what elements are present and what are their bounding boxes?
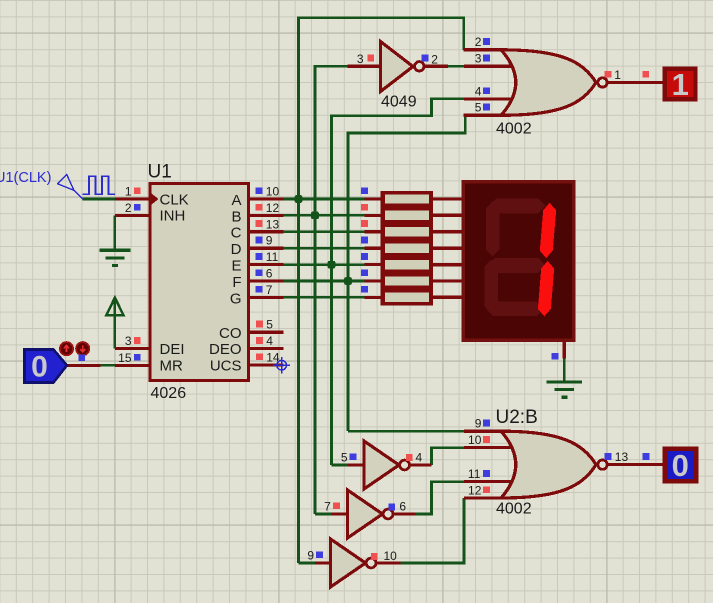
resistor R3 (segment C) bbox=[381, 224, 434, 240]
pin stub 4049 output pin 2 bbox=[425, 65, 449, 68]
state square U3:A output bbox=[406, 454, 413, 461]
U3:C input pin number 9 bbox=[307, 549, 314, 563]
pin stub U1 pin 12 B bbox=[249, 214, 284, 217]
pin stub U1 pin 4 DEO bbox=[249, 347, 284, 350]
state square net A at resistor bbox=[361, 187, 368, 194]
svg-text:2: 2 bbox=[125, 201, 132, 215]
pin stub inverter U3:B output pin 6 bbox=[393, 512, 416, 515]
pin stub gate U2:A output pin 1 bbox=[607, 81, 663, 84]
wire: inverter U3:A output up to gate U2:B pin 10 bbox=[432, 448, 465, 465]
svg-text:4: 4 bbox=[475, 84, 482, 98]
pin stub inverter U3:B input pin 7 bbox=[332, 512, 349, 515]
pin stub gate U2:A pin 2 bbox=[464, 48, 502, 51]
state square U2:B pin 9 bbox=[483, 420, 490, 427]
state square U1 pin 7 bbox=[256, 286, 263, 293]
resistor R2 (segment B) bbox=[381, 207, 434, 223]
pin stub gate U2:B pin 12 bbox=[464, 496, 502, 499]
svg-text:1: 1 bbox=[672, 67, 689, 102]
svg-text:5: 5 bbox=[475, 101, 482, 115]
svg-text:MR: MR bbox=[160, 358, 183, 375]
svg-text:11: 11 bbox=[468, 467, 481, 481]
svg-text:15: 15 bbox=[118, 351, 132, 365]
wire: net F from U1 to resistor ladder bbox=[283, 280, 365, 283]
U1 pin name MR bbox=[160, 358, 183, 375]
state square U1 pin 12 bbox=[256, 204, 263, 211]
svg-text:U2:B: U2:B bbox=[496, 407, 538, 428]
U1 pin name INH bbox=[160, 208, 186, 225]
wire: U1 pin 2 (INH) down to ground bbox=[114, 215, 117, 250]
state square U1 pin 11 bbox=[256, 253, 263, 260]
svg-text:12: 12 bbox=[468, 483, 482, 497]
state square U3:B output bbox=[388, 504, 395, 511]
svg-text:4: 4 bbox=[266, 334, 273, 348]
state square U1 pin 9 bbox=[256, 237, 263, 244]
pin stub gate U2:B pin 11 bbox=[464, 480, 511, 483]
state square U3:C output bbox=[371, 553, 378, 560]
wire: logic tag to U1 pin 15 (MR) bbox=[101, 364, 115, 367]
wire: clock generator to U1 pin 1 bbox=[83, 198, 115, 201]
svg-text:10: 10 bbox=[384, 549, 398, 563]
4049 input pin number 3 bbox=[357, 52, 364, 66]
svg-text:U1: U1 bbox=[148, 162, 172, 183]
wire: vertical net E riser, jog to gate U2:A pin 4 bbox=[332, 99, 465, 465]
state square net D at resistor bbox=[361, 237, 368, 244]
wire: net G from U1 to resistor ladder bbox=[283, 296, 365, 299]
svg-text:3: 3 bbox=[125, 334, 132, 348]
svg-text:CO: CO bbox=[219, 325, 242, 342]
U1 pin name E bbox=[231, 258, 241, 275]
state square U3:C input bbox=[316, 551, 323, 558]
7-segment display body bbox=[463, 182, 574, 340]
svg-text:4026: 4026 bbox=[151, 385, 187, 402]
pin stub U1 pin 1 CLK bbox=[115, 197, 150, 200]
logic state toggle button up bbox=[60, 342, 73, 355]
svg-text:CLK: CLK bbox=[160, 191, 189, 208]
U1 pin name D bbox=[231, 241, 242, 258]
4049 output pin number 2 bbox=[431, 52, 438, 66]
pin stub U1 pin 6 F bbox=[249, 279, 284, 282]
state square U2:A pin 2 bbox=[483, 38, 490, 45]
U2:A pin number 5 bbox=[475, 101, 482, 115]
wire: vertical net A riser to top then to gate U2:A pin 2 bbox=[299, 18, 464, 563]
svg-text:4002: 4002 bbox=[496, 501, 532, 518]
state square U1 pin 1 bbox=[134, 187, 141, 194]
wire: vertical net F riser to gate U2:A pin 5 bbox=[348, 115, 465, 431]
U1 pin name C bbox=[231, 225, 242, 242]
U1 pin name DEO bbox=[209, 341, 242, 358]
U1 pin number 7 bbox=[266, 283, 273, 297]
svg-text:10: 10 bbox=[266, 185, 280, 199]
state square U1 pin 10 bbox=[256, 187, 263, 194]
svg-text:F: F bbox=[232, 274, 241, 291]
U2:B output pin number 13 bbox=[615, 450, 629, 464]
state square U2:A pin 5 bbox=[483, 104, 490, 111]
inverter U3:B bbox=[348, 490, 394, 538]
svg-text:2: 2 bbox=[431, 52, 438, 66]
svg-text:0: 0 bbox=[31, 351, 48, 384]
U3:C output pin number 10 bbox=[384, 549, 398, 563]
svg-text:9: 9 bbox=[307, 549, 314, 563]
pin stub U1 pin 3 DEI bbox=[115, 347, 150, 350]
pin stub U1 pin 13 C bbox=[249, 230, 284, 233]
state square net C at resistor bbox=[361, 220, 368, 227]
state square at MR tag bbox=[78, 354, 85, 361]
U1 reference label bbox=[148, 162, 172, 183]
svg-text:3: 3 bbox=[475, 52, 482, 66]
pin stub inverter U3:C output pin 10 bbox=[376, 561, 401, 564]
resistor R4 (segment D) bbox=[381, 240, 434, 256]
pin stub inverter U3:A output pin 4 bbox=[410, 463, 432, 466]
wire: net E riser to inverter U3:A input bbox=[332, 464, 349, 467]
U2:A pin number 2 bbox=[475, 35, 482, 49]
svg-text:3: 3 bbox=[357, 52, 364, 66]
svg-text:12: 12 bbox=[266, 201, 280, 215]
state square U3:A input bbox=[350, 453, 357, 460]
state square U1 pin 13 bbox=[256, 220, 263, 227]
svg-text:11: 11 bbox=[266, 250, 279, 264]
state square U1 pin 4 bbox=[256, 337, 263, 344]
wire: display common cathode to ground bbox=[563, 359, 566, 382]
U1 pin name UCS bbox=[210, 358, 242, 375]
wire: net A from U1 to resistor ladder bbox=[283, 198, 365, 201]
state square U1 pin 15 bbox=[134, 354, 141, 361]
svg-text:1: 1 bbox=[614, 68, 621, 82]
clock generator probe symbol bbox=[58, 174, 83, 199]
svg-text:4: 4 bbox=[416, 451, 423, 465]
U1 pin number 5 bbox=[266, 318, 273, 332]
state square U2:B pin 12 bbox=[483, 486, 490, 493]
pin stub 4049 input pin 3 bbox=[348, 65, 381, 68]
U1 pin number 2 bbox=[125, 201, 132, 215]
pin stub gate U2:B pin 9 bbox=[464, 430, 502, 433]
U2:B pin number 9 bbox=[475, 417, 482, 431]
wire: net E from U1 to resistor ladder bbox=[283, 263, 365, 266]
U1 pin name F bbox=[232, 274, 241, 291]
svg-text:7: 7 bbox=[324, 500, 331, 514]
pin stub inverter U3:A input pin 5 bbox=[348, 463, 365, 466]
clock generator waveform glyph bbox=[83, 176, 115, 194]
logic state tag 0 at MR bbox=[25, 350, 67, 384]
pin stub U1 pin 10 A bbox=[249, 197, 284, 200]
U2:B pin number 12 bbox=[468, 483, 482, 497]
display segment G (off) bbox=[487, 258, 545, 273]
U1 value label 4026 bbox=[151, 385, 187, 402]
svg-text:13: 13 bbox=[266, 217, 280, 231]
state square U1 pin 3 bbox=[134, 337, 141, 344]
inverter U3:A bbox=[364, 441, 410, 489]
state square net E at resistor bbox=[361, 253, 368, 260]
state square U2:B pin 10 bbox=[483, 436, 490, 443]
resistor R5 (segment E) bbox=[381, 256, 434, 272]
svg-text:D: D bbox=[231, 241, 242, 258]
U1 pin number 13 bbox=[266, 217, 280, 231]
state square display common bbox=[552, 353, 559, 360]
wire: net D from U1 to resistor ladder bbox=[283, 247, 365, 250]
pin stub U1 pin 7 G bbox=[249, 296, 284, 299]
wire: net F down to gate U2:B pin 9 bbox=[348, 430, 464, 433]
pin stub gate U2:B output pin 13 bbox=[607, 463, 663, 466]
svg-text:E: E bbox=[231, 258, 241, 275]
logic probe box 0 (low) bbox=[665, 448, 697, 483]
state square U2:A output pin 1 bbox=[605, 71, 612, 78]
U1 pin name CO bbox=[219, 325, 242, 342]
svg-text:5: 5 bbox=[341, 450, 348, 464]
state square net B at resistor bbox=[361, 204, 368, 211]
pin stub resistor leads left column bbox=[365, 199, 382, 297]
resistor R7 (segment G) bbox=[381, 289, 434, 305]
svg-text:UCS: UCS bbox=[210, 358, 242, 375]
pin stub U1 pin 11 E bbox=[249, 263, 284, 266]
pin stub inverter U3:C input pin 9 bbox=[315, 561, 331, 564]
svg-text:2: 2 bbox=[475, 35, 482, 49]
display segment A (off) bbox=[489, 199, 546, 214]
state square U3:B input bbox=[333, 502, 340, 509]
svg-text:0: 0 bbox=[672, 448, 689, 483]
wire: net B riser to inverter U3:B input bbox=[315, 513, 332, 516]
pin stub U1 pin 15 MR bbox=[67, 364, 150, 367]
svg-text:7: 7 bbox=[266, 283, 273, 297]
pin stub U1 pin 5 CO bbox=[249, 331, 284, 334]
svg-text:9: 9 bbox=[475, 417, 482, 431]
wire: power arrow down to U1 pin 3 (DEI) bbox=[114, 300, 117, 349]
state square U1 pin 6 bbox=[256, 269, 263, 276]
logic probe box 1 (high) bbox=[665, 67, 696, 102]
U1 pin number 4 bbox=[266, 334, 273, 348]
svg-text:6: 6 bbox=[399, 499, 406, 513]
resistor R6 (segment F) bbox=[381, 273, 434, 289]
svg-text:B: B bbox=[231, 208, 241, 225]
U1 pin number 14 bbox=[266, 351, 280, 365]
U1 pin number 1 bbox=[125, 185, 132, 199]
state square 4049 output bbox=[422, 55, 429, 62]
U1 pin name CLK bbox=[160, 191, 189, 208]
svg-text:6: 6 bbox=[266, 267, 273, 281]
U2:B value label 4002 bbox=[496, 501, 532, 518]
svg-text:INH: INH bbox=[160, 208, 186, 225]
U2:A pin number 3 bbox=[475, 52, 482, 66]
ground symbol under display bbox=[547, 382, 583, 397]
pin stub gate U2:A pin 5 bbox=[464, 114, 502, 117]
U3:B input pin number 7 bbox=[324, 500, 331, 514]
counter U1 4026 body bbox=[150, 184, 249, 381]
pin stub gate U2:A pin 3 bbox=[464, 65, 511, 68]
wire: net A riser to inverter U3:C input bbox=[299, 562, 316, 565]
wire: inverter U3:C output to gate U2:B pin 12 bbox=[400, 498, 464, 563]
svg-text:A: A bbox=[231, 192, 241, 209]
junction dot net B bbox=[311, 212, 319, 220]
U1 pin name A bbox=[231, 192, 241, 209]
U1 pin number 11 bbox=[266, 250, 279, 264]
state square U1 pin 14 bbox=[256, 353, 263, 360]
pin stub U1 pin 14 UCS bbox=[249, 363, 284, 366]
U1 pin number 3 bbox=[125, 334, 132, 348]
logic state toggle button down bbox=[76, 342, 89, 355]
state square U2:A pin 4 bbox=[483, 87, 490, 94]
junction dot net E bbox=[328, 261, 336, 269]
U2:B pin number 11 bbox=[468, 467, 481, 481]
origin marker at U1 pin 14 bbox=[273, 357, 290, 374]
state square net G at resistor bbox=[361, 286, 368, 293]
wire: net B from U1 to resistor ladder bbox=[283, 214, 365, 217]
wire: net C from U1 to resistor ladder bbox=[283, 231, 365, 234]
svg-text:13: 13 bbox=[615, 450, 629, 464]
resistor R1 (segment A) bbox=[381, 191, 434, 207]
state square U2:B output pin 13 bbox=[605, 453, 612, 460]
svg-text:4049: 4049 bbox=[381, 94, 417, 111]
U1 pin number 10 bbox=[266, 185, 280, 199]
svg-text:C: C bbox=[231, 225, 242, 242]
display segment F (off) bbox=[486, 201, 500, 256]
pin stub display common cathode bbox=[563, 339, 566, 359]
U2:A output pin number 1 bbox=[614, 68, 621, 82]
svg-text:U1(CLK): U1(CLK) bbox=[0, 170, 51, 186]
inverter U2 4049 bbox=[381, 42, 424, 92]
U1 pin number 12 bbox=[266, 201, 280, 215]
svg-text:DEI: DEI bbox=[160, 341, 185, 358]
display segment B (lit) bbox=[540, 203, 556, 258]
NOR gate U2:A 4002 body bbox=[501, 50, 607, 116]
state square U1 pin 5 bbox=[256, 321, 263, 328]
svg-text:1: 1 bbox=[125, 185, 132, 199]
svg-text:4002: 4002 bbox=[496, 121, 532, 138]
wire: inverter U3:B output up to gate U2:B pin 11 bbox=[416, 482, 464, 514]
state square U2:B pin 11 bbox=[483, 470, 490, 477]
state square 4049 input bbox=[367, 55, 374, 62]
wire: 4049 output to gate U2:A pin 3 bbox=[448, 65, 464, 68]
U2:A value label 4002 bbox=[496, 121, 532, 138]
U1 pin name B bbox=[231, 208, 241, 225]
clock generator label U1(CLK) bbox=[0, 170, 51, 186]
U1 pin name G bbox=[230, 290, 242, 307]
U1 pin name DEI bbox=[160, 341, 185, 358]
U2:A pin number 4 bbox=[475, 84, 482, 98]
display segment E (off) bbox=[484, 260, 498, 314]
svg-text:G: G bbox=[230, 290, 242, 307]
svg-text:5: 5 bbox=[266, 318, 273, 332]
display segment D (off) bbox=[486, 301, 544, 316]
inverter U3:C bbox=[331, 539, 377, 587]
NOR gate U2:B 4002 body bbox=[501, 431, 607, 498]
state square net at probe 1 bbox=[642, 71, 649, 78]
U3:A output pin number 4 bbox=[416, 451, 423, 465]
U2:B pin number 10 bbox=[468, 433, 482, 447]
pin stub gate U2:A pin 4 bbox=[464, 97, 511, 100]
state square net at probe 0 bbox=[643, 453, 650, 460]
U1 pin number 6 bbox=[266, 267, 273, 281]
pin stub U1 pin 2 INH bbox=[115, 214, 150, 217]
U1 pin number 15 bbox=[118, 351, 132, 365]
state square U2:A pin 3 bbox=[483, 55, 490, 62]
power arrow (VCC) at U1 DEI bbox=[106, 298, 123, 316]
ground symbol at U1 INH bbox=[100, 250, 131, 265]
pin stub U1 pin 9 D bbox=[249, 247, 284, 250]
svg-text:DEO: DEO bbox=[209, 341, 242, 358]
pin stub resistor leads right column to display bbox=[433, 199, 465, 297]
4049 value label bbox=[381, 94, 417, 111]
state square net F at resistor bbox=[361, 269, 368, 276]
display segment C (lit) bbox=[538, 261, 554, 316]
junction dot net F bbox=[344, 277, 352, 285]
wire: vertical net B riser to 4049 input bbox=[315, 66, 348, 514]
U2:B reference label bbox=[496, 407, 538, 428]
pin stub gate U2:B pin 10 bbox=[464, 446, 511, 449]
U3:B output pin number 6 bbox=[399, 499, 406, 513]
junction dot net A bbox=[295, 195, 303, 203]
svg-text:10: 10 bbox=[468, 433, 482, 447]
svg-text:9: 9 bbox=[266, 234, 273, 248]
U1 pin number 9 bbox=[266, 234, 273, 248]
U3:A input pin number 5 bbox=[341, 450, 348, 464]
state square U1 pin 2 bbox=[134, 204, 141, 211]
